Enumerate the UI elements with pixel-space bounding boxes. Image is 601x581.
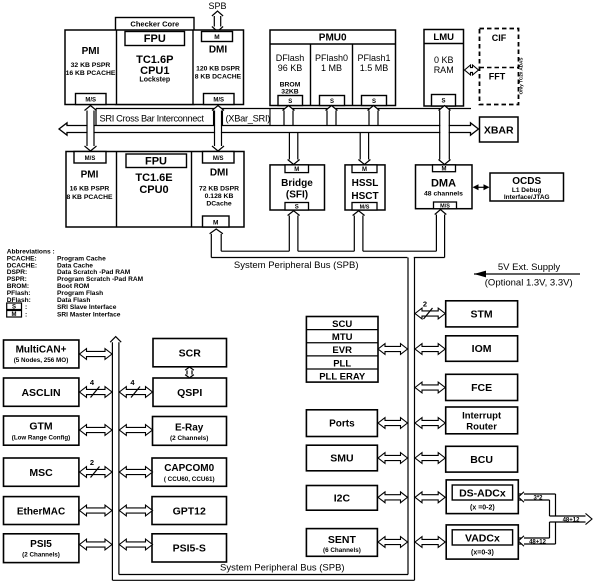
svg-text:PSI5-S: PSI5-S [173,543,206,555]
svg-text:IOM: IOM [472,343,492,355]
svg-text:M: M [442,166,447,172]
svg-text:SENT: SENT [328,534,357,546]
wire MultiCAN+ arrow [80,349,113,360]
svg-text:(x =0-2): (x =0-2) [470,505,495,512]
svg-text:48+12: 48+12 [529,540,547,546]
svg-text:System Peripheral Bus (SPB): System Peripheral Bus (SPB) [234,260,359,271]
svg-text:32 KB PSPR: 32 KB PSPR [71,62,111,69]
block Interrupt Router [446,407,518,434]
svg-text:Router: Router [466,422,497,433]
svg-text:(Low Range Config): (Low Range Config) [12,435,70,442]
block M interface (Bridge top) [285,165,309,173]
wire DS-ADCx output pipe [518,492,555,502]
block SCU MTU EVR PLL stack [306,317,378,383]
svg-text:(5 Nodes, 256 MO): (5 Nodes, 256 MO) [14,357,69,364]
svg-text:16 KB PSPR: 16 KB PSPR [70,186,110,193]
block E-Ray [153,417,227,446]
wire GTM arrow [80,425,113,436]
block M interface (CPU0 DMI bottom) [203,216,230,227]
svg-text:M/S: M/S [360,205,370,211]
svg-text:4: 4 [90,378,95,387]
svg-text:5V Ext. Supply: 5V Ext. Supply [498,262,561,273]
wire CPU1 DMI M/S to CPU0 DMI M/S arrow [212,106,224,152]
block OCDS [490,173,564,201]
block M interface (DMA top) [433,165,456,172]
svg-text:120 KB DSPR: 120 KB DSPR [196,66,240,73]
block M/S interface (CPU1 DMI bottom) [204,94,235,105]
block PMI CPU0 labels [66,170,113,202]
wire DFlash S arrow from SRI bus [283,106,295,127]
svg-text:System Peripheral Bus (SPB): System Peripheral Bus (SPB) [220,563,345,574]
block CPU1 cluster outline [65,30,244,105]
svg-text:M: M [214,34,219,41]
block EtherMAC [4,497,79,525]
wire IOM arrow [415,344,445,355]
block S interface (LMU) [432,95,456,107]
block SCR [153,339,227,367]
wire EtherMAC arrow [80,505,113,516]
wire VADCx arrow [415,537,445,548]
svg-text:S: S [295,205,299,211]
block DMI CPU0 labels [199,168,239,208]
svg-text:Bridge: Bridge [281,178,313,189]
wire PSI5 arrow [80,539,113,550]
svg-text:PMU0: PMU0 [319,33,347,44]
wire ADC bracket verticals [550,494,556,544]
wire PMU0 header divider [270,43,396,45]
note System Peripheral Bus (SPB) lower label [220,563,345,574]
svg-text:M/S: M/S [213,98,224,104]
block QSPI [153,378,227,406]
block DMI CPU1 labels [195,45,242,81]
bus SPB left trunk and bottom segment [110,337,414,581]
svg-text:Lockstep: Lockstep [139,77,170,84]
svg-text:EtherMAC: EtherMAC [17,507,65,518]
svg-text:S: S [372,99,376,105]
svg-text:8 KB PCACHE: 8 KB PCACHE [66,194,113,201]
wire SCR-QSPI vertical arrow [185,367,194,378]
wire SPB to HSSL M/S arrow [353,211,365,251]
block M/S interface (CPU0 DMI top) [203,152,235,164]
svg-text:HSCT: HSCT [351,191,378,202]
block M/S interface (HSSL bottom) [352,203,377,211]
svg-text:Only TC2x ADAS: Only TC2x ADAS [519,58,524,95]
block SRI crossbar label box [96,109,471,126]
wire SRI bus to HSSL M arrow [358,133,370,165]
block DS-ADCx [446,480,518,514]
svg-text:16 KB PCACHE: 16 KB PCACHE [66,70,116,77]
wire LMU-CIF double arrow [465,65,479,75]
svg-text:0 KB: 0 KB [434,55,454,65]
block BCU [446,446,518,472]
wire LMU header divider [424,43,464,45]
svg-text:1 MB: 1 MB [321,63,342,73]
svg-text:M: M [362,167,367,173]
block S interface (PFlash0) [320,96,345,106]
block FPU (CPU1) [125,32,185,46]
svg-text:STM: STM [471,309,493,321]
svg-text:M/S: M/S [440,204,450,210]
block ASCLIN [4,378,79,406]
wire CPU0 internal divider right [191,152,193,228]
block GTM [4,416,79,445]
wire PMU0 divider 1 [310,44,312,106]
svg-text:S: S [12,305,16,311]
svg-text:32KB: 32KB [281,89,298,96]
svg-text:FCE: FCE [471,382,492,394]
block TC1.6E CPU0 labels [135,172,172,196]
svg-text:4: 4 [130,378,135,387]
block Ports [306,410,377,437]
svg-text:MultiCAN+: MultiCAN+ [16,345,67,356]
svg-text:72 KB DSPR: 72 KB DSPR [199,186,239,193]
block FCE [446,374,518,400]
block LMU RAM labels [434,55,454,75]
wire PFlash1 S arrow from SRI bus [368,106,380,127]
svg-text:( CCU60, CCU61): ( CCU60, CCU61) [164,476,215,483]
svg-text:SRI Slave Interface: SRI Slave Interface [57,304,117,311]
svg-text:3*2: 3*2 [533,496,543,502]
block SENT [306,529,377,557]
block M/S interface (DMA bottom) [434,202,457,210]
wire SRI bus to Bridge M arrow [288,133,300,165]
svg-text:PFlash1: PFlash1 [357,53,390,63]
svg-text:CPU0: CPU0 [139,184,168,196]
block PSI5 [4,534,79,563]
svg-text:QSPI: QSPI [177,387,202,399]
svg-text:RAM: RAM [434,65,454,75]
svg-text:SPB: SPB [208,1,226,11]
block FPU (CPU0) [126,154,187,168]
svg-text:BCU: BCU [470,454,493,466]
svg-text:(x=0-3): (x=0-3) [471,550,494,557]
svg-text:2: 2 [423,300,427,309]
wire DS-ADCx arrow [415,492,445,503]
block GPT12 [152,497,227,525]
svg-text:M/S: M/S [85,98,96,104]
block TC1.6P CPU1 labels [136,54,173,84]
svg-text:FFT: FFT [489,72,506,82]
bus SRI Cross Bar Interconnect [59,123,479,135]
wire CPU1 internal divider right [192,30,194,105]
block HSSL labels [351,178,378,202]
svg-text:SRI Master Interface: SRI Master Interface [57,312,121,319]
svg-text:FPU: FPU [145,156,167,168]
svg-text:PMI: PMI [81,170,99,181]
note vertical ADAS text [519,58,524,95]
block DFlash labels [276,53,305,96]
block M/S interface (CPU1 PMI bottom) [76,94,107,105]
wire SPB to Bridge S arrow [288,211,300,251]
svg-text:DMA: DMA [431,178,456,190]
svg-text:ASCLIN: ASCLIN [21,387,60,399]
svg-text:FPU: FPU [144,33,166,45]
svg-text:0.128 KB: 0.128 KB [205,193,234,200]
svg-text:(2 Channels): (2 Channels) [170,435,208,442]
svg-text:M/S: M/S [213,156,224,162]
wire CAPCOM0 arrow [119,467,152,478]
svg-text:DCache: DCache [206,201,232,208]
block FFT label [489,72,506,82]
wire LMU S to DMA M arrow [439,106,451,165]
block CAPCOM0 [152,458,227,486]
svg-text:(2 Channels): (2 Channels) [22,552,60,559]
svg-text:96 KB: 96 KB [278,63,303,73]
wire E-Ray arrow [119,425,152,436]
svg-text:L1 Debug: L1 Debug [512,187,542,194]
block SMU [306,445,377,471]
block CIF label [492,33,507,43]
svg-text:M: M [213,220,218,227]
block M/S interface (CPU0 PMI top) [74,152,106,164]
svg-text:EVR: EVR [332,345,352,356]
bus SPB horizontal upper segment [211,251,444,257]
block MSC [4,458,79,486]
wire Ports arrow [378,418,408,429]
wire PFlash0 S arrow from SRI bus [326,106,338,127]
svg-text:Ports: Ports [329,419,355,430]
svg-text:MSC: MSC [29,467,53,479]
svg-text:Checker Core: Checker Core [130,20,179,29]
block XBAR [480,117,519,142]
svg-text:48+12: 48+12 [563,518,581,524]
block IOM [446,336,518,362]
wire FCE arrow [415,382,445,393]
svg-text:SCR: SCR [179,348,202,360]
svg-text:Data Flash: Data Flash [57,297,90,304]
note M legend [7,311,121,319]
svg-text:8 KB DCACHE: 8 KB DCACHE [195,74,242,81]
svg-text:LMU: LMU [433,32,454,43]
wire QSPI arrow [119,378,152,398]
wire I2C arrow [378,492,408,503]
note S legend [7,303,117,311]
wire EVR arrow [378,344,408,355]
block S interface (PFlash1) [362,96,387,106]
svg-text:PMI: PMI [82,46,100,57]
svg-text:(Optional 1.3V, 3.3V): (Optional 1.3V, 3.3V) [485,278,573,289]
block Bridge SFI outline [270,165,325,210]
svg-text:HSSL: HSSL [352,178,379,189]
svg-text:SCU: SCU [332,319,352,330]
wire Interrupt Router arrow [415,418,445,429]
svg-text:DMI: DMI [209,45,228,56]
wire ASCLIN arrow [80,378,113,398]
block PFlash1 labels [357,53,390,73]
svg-text::: : [25,312,27,319]
block I2C [306,486,377,511]
svg-text:PLL ERAY: PLL ERAY [319,371,366,382]
wire PSI5-S arrow [119,539,152,550]
svg-text:PLL: PLL [333,358,351,369]
wire GPT12 arrow [119,505,152,516]
svg-text:S: S [330,99,334,105]
svg-text:M: M [294,167,299,173]
svg-text:BROM: BROM [280,82,301,89]
block S interface (DFlash) [278,96,303,106]
svg-text:M: M [12,312,17,318]
svg-text:PFlash0: PFlash0 [315,53,348,63]
block S interface (Bridge bottom) [285,203,309,211]
svg-text::: : [25,304,27,311]
svg-text:CPU1: CPU1 [140,65,169,77]
bus SPB right trunk [408,258,415,581]
svg-text:SMU: SMU [330,453,353,465]
wire PMU0 divider 2 [352,44,354,106]
block PMU0 outline [270,30,396,106]
block DMA labels [424,178,463,198]
svg-text:1.5 MB: 1.5 MB [360,63,389,73]
block VADCx [446,525,518,559]
wire CPU1 PMI M/S to CPU0 PMI M/S arrow [85,106,97,152]
svg-text:TC1.6E: TC1.6E [135,172,172,184]
wire CPU1 internal divider left [116,30,118,105]
svg-text:CIF: CIF [492,33,507,43]
block MultiCAN+ [4,340,79,368]
svg-text:XBAR: XBAR [484,125,514,137]
note 5V Ext. Supply [474,262,580,289]
wire SPB vertical double-arrow to DMI M [212,11,223,32]
svg-text:GPT12: GPT12 [173,506,206,518]
svg-text:OCDS: OCDS [512,176,541,187]
svg-text:DFlash: DFlash [276,53,305,63]
block PSI5-S [152,534,227,562]
block CPU0 cluster outline [66,152,244,228]
block Checker Core (CPU1 lockstep wrapper) [116,18,195,105]
note abbreviations list [7,249,144,304]
svg-text:PSI5: PSI5 [30,539,52,550]
svg-text:VADCx: VADCx [465,533,500,545]
wire ADC combined output arrow [550,513,593,524]
block DMA outline [416,165,473,209]
block STM [446,301,518,327]
svg-text:M/S: M/S [85,156,96,162]
wire BCU arrow [415,453,445,464]
block LMU outline [424,30,464,107]
block M interface (CPU1 DMI top) [202,32,233,42]
svg-text:I2C: I2C [334,493,351,505]
block HSSL HSCT outline [345,165,385,210]
block PFlash0 labels [315,53,348,73]
svg-text:DMI: DMI [210,168,229,179]
svg-text:GTM: GTM [29,421,53,433]
svg-text:48 channels: 48 channels [424,191,463,198]
block Bridge labels [281,178,313,201]
net SPB top label [208,1,226,11]
wire CPU0 internal divider left [116,152,118,228]
svg-text:Interrupt: Interrupt [462,411,502,422]
wire SPB to CPU0 M arrow [210,229,223,258]
svg-text:DS-ADCx: DS-ADCx [459,488,506,500]
svg-text:(XBar_SRI): (XBar_SRI) [226,114,271,124]
block M interface (HSSL top) [352,165,377,173]
wire DMA-OCDS double arrow [473,184,490,190]
svg-text:S: S [288,99,292,105]
svg-text:S: S [441,99,445,105]
note System Peripheral Bus (SPB) upper label [234,260,359,271]
svg-text:2: 2 [90,458,94,467]
svg-text:E-Ray: E-Ray [175,423,204,434]
block PMI CPU1 labels [66,46,116,77]
wire STM arrow [415,300,445,320]
svg-text:(SFI): (SFI) [286,190,308,201]
svg-text:SRI Cross Bar Interconnect: SRI Cross Bar Interconnect [100,114,205,124]
wire SPB to DMA M/S arrow [435,210,447,258]
wire SENT arrow [378,537,408,548]
wire VADCx output pipe [518,536,555,546]
wire SMU arrow [378,453,408,464]
svg-text:MTU: MTU [332,332,353,343]
block CIF FFT dashed outline [480,29,519,105]
svg-text:(6 Channels): (6 Channels) [323,547,361,554]
svg-text:CAPCOM0: CAPCOM0 [164,463,214,474]
wire CIF FFT dashed divider [480,67,519,69]
wire MSC arrow [80,458,113,478]
svg-text:Interface/JTAG: Interface/JTAG [504,194,550,201]
